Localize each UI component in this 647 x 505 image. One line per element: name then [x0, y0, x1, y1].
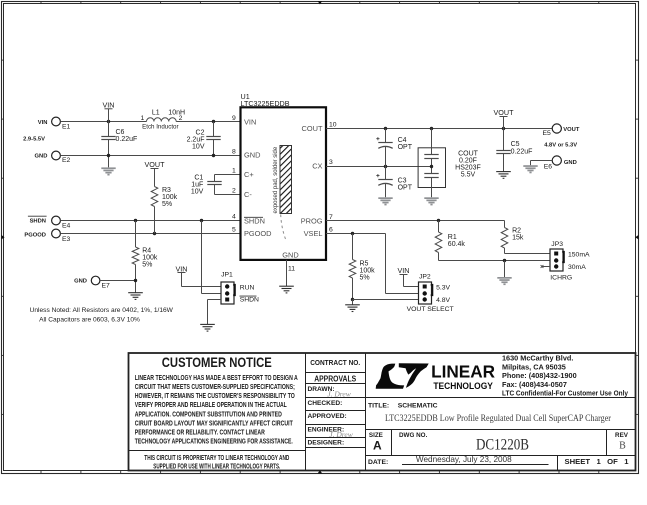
svg-text:DC1220B: DC1220B — [476, 436, 529, 453]
junction VSEL/R5 — [351, 232, 354, 235]
svg-text:SHDN: SHDN — [30, 218, 46, 224]
svg-text:VOUT: VOUT — [145, 160, 166, 169]
svg-text:100k: 100k — [162, 194, 178, 201]
svg-text:C4: C4 — [398, 137, 407, 144]
wire E7 to R4 bottom — [100, 280, 136, 282]
svg-text:4.8V: 4.8V — [436, 297, 450, 304]
capacitor C1 1uF 10V — [207, 181, 221, 183]
capacitor C3 OPT (polarized) — [385, 167, 387, 180]
svg-text:Unless Noted: All Resistors ar: Unless Noted: All Resistors are 0402, 1%… — [30, 307, 174, 314]
connector E5 — [552, 124, 561, 133]
svg-text:Milpitas, CA 95035: Milpitas, CA 95035 — [502, 362, 566, 371]
svg-text:R5: R5 — [360, 260, 369, 267]
Linear Technology logo mark — [376, 363, 429, 388]
junction R1-net/ground — [503, 259, 506, 262]
svg-text:1: 1 — [141, 115, 145, 122]
junction R4/E7 — [134, 279, 137, 282]
svg-text:R2: R2 — [512, 227, 521, 234]
resistor R2 15k — [504, 221, 506, 228]
svg-text:REV: REV — [615, 432, 629, 439]
junction SHDN/JP1 — [200, 219, 203, 222]
wire VIN tap to JP1 pin 1 — [182, 286, 222, 288]
svg-text:5.3V: 5.3V — [436, 284, 450, 291]
wire JP1 pin3 to ground — [208, 299, 222, 301]
svg-text:CX: CX — [312, 162, 322, 171]
svg-text:150mA: 150mA — [568, 252, 590, 259]
wire SHDN net: E4 to U1 pin 4 — [60, 220, 240, 222]
wire PGOOD net: E3 to U1 pin 5 — [60, 233, 240, 235]
op IC U1 LTC3225EDDB body — [241, 107, 327, 260]
svg-text:APPLICATION. COMPONENT SUBSTI: APPLICATION. COMPONENT SUBSTITUTION AND … — [135, 409, 282, 418]
svg-text:5%: 5% — [142, 262, 152, 269]
svg-text:SCHEMATIC: SCHEMATIC — [398, 402, 438, 409]
junction PROG/R1 — [437, 219, 440, 222]
svg-text:E7: E7 — [102, 283, 111, 290]
svg-text:4: 4 — [232, 214, 236, 221]
junction VIN/C2 — [212, 120, 215, 123]
svg-text:All Capacitors are 0603, 6.3V: All Capacitors are 0603, 6.3V 10% — [39, 316, 140, 323]
svg-text:E6: E6 — [544, 164, 553, 171]
svg-text:GND: GND — [35, 153, 48, 159]
wire R1 bottom to JP3 pin2 — [439, 260, 551, 262]
svg-text:GND: GND — [564, 160, 577, 166]
svg-text:5: 5 — [232, 227, 236, 234]
svg-text:5.5V: 5.5V — [461, 171, 476, 178]
svg-text:DWG NO.: DWG NO. — [399, 432, 428, 439]
svg-text:C-: C- — [244, 190, 252, 199]
svg-text:R4: R4 — [142, 248, 151, 255]
wire R2 to JP3 pin1 — [505, 253, 551, 255]
svg-text:LINEAR TECHNOLOGY HAS MADE A B: LINEAR TECHNOLOGY HAS MADE A BEST EFFORT… — [135, 373, 298, 382]
jumper JP1 RUN/SHDN — [221, 282, 234, 304]
jumper JP2 VOUT SELECT — [419, 282, 432, 304]
connector E1 — [52, 117, 61, 126]
svg-text:C3: C3 — [398, 177, 407, 184]
svg-text:LTC3225EDDB Low Profile Regula: LTC3225EDDB Low Profile Regulated Dual C… — [385, 413, 612, 424]
svg-text:J. Drew: J. Drew — [327, 390, 350, 399]
svg-text:C+: C+ — [244, 170, 254, 179]
svg-text:6: 6 — [329, 227, 333, 234]
svg-text:E3: E3 — [62, 236, 71, 243]
svg-text:10V: 10V — [191, 188, 204, 195]
connector E6 — [552, 156, 561, 165]
svg-text:SHDN: SHDN — [240, 297, 259, 304]
svg-text:100k: 100k — [360, 267, 376, 274]
svg-text:DATE:: DATE: — [368, 459, 388, 466]
wire R3 to PGOOD net — [154, 207, 156, 234]
svg-text:TECHNOLOGY APPLICATIONS ENGINE: TECHNOLOGY APPLICATIONS ENGINEERING FOR … — [135, 437, 293, 446]
svg-text:E4: E4 — [62, 223, 71, 230]
resistor R3 100k 5% — [151, 187, 158, 207]
svg-text:VSEL: VSEL — [304, 229, 323, 238]
svg-text:VIN: VIN — [38, 120, 48, 126]
svg-text:9: 9 — [232, 115, 236, 122]
svg-text:LINEAR: LINEAR — [431, 362, 495, 382]
connector E3 — [52, 229, 61, 238]
ground (gray) under C3 — [378, 197, 392, 199]
svg-text:1: 1 — [232, 168, 236, 175]
wire VIN net: E1 to L1 — [60, 121, 146, 123]
svg-text:APPROVED:: APPROVED: — [308, 413, 347, 420]
svg-text:Etch Inductor: Etch Inductor — [142, 123, 178, 130]
supercap COUT 0.20F HS203F 5.5V — [418, 148, 445, 188]
svg-text:E5: E5 — [542, 130, 551, 137]
no-connect stub JP3 pin3 — [542, 266, 550, 268]
svg-text:C5: C5 — [511, 141, 520, 148]
svg-text:11: 11 — [288, 265, 295, 272]
junction R5/JP2 wire — [351, 298, 354, 301]
svg-text:CIRUIT BOARD LAYOUT MAY SIGNIF: CIRUIT BOARD LAYOUT MAY SIGNIFICANTLY AF… — [135, 418, 293, 427]
svg-text:1630 McCarthy Blvd.: 1630 McCarthy Blvd. — [502, 354, 573, 363]
wire R5 to ground — [352, 300, 354, 305]
svg-text:C2: C2 — [196, 130, 205, 137]
svg-text:E1: E1 — [62, 124, 71, 131]
svg-text:PERFORMANCE OR RELIABILITY. C: PERFORMANCE OR RELIABILITY. CONTACT LINE… — [135, 428, 266, 437]
svg-text:R1: R1 — [448, 234, 457, 241]
svg-text:TITLE:: TITLE: — [368, 402, 389, 409]
svg-text:COUT: COUT — [302, 124, 323, 133]
svg-text:VOUT SELECT: VOUT SELECT — [407, 306, 454, 313]
svg-text:10: 10 — [329, 121, 337, 128]
wire U1 pin1 C+ to C1 — [215, 174, 241, 176]
wire R5 bottom to JP2 pin3 — [353, 299, 419, 301]
svg-text:0.20F: 0.20F — [459, 157, 477, 164]
svg-text:5%: 5% — [360, 274, 370, 281]
svg-text:PROG: PROG — [301, 217, 323, 226]
svg-text:Phone: (408)432-1900: Phone: (408)432-1900 — [502, 371, 577, 380]
svg-text:5%: 5% — [162, 201, 172, 208]
inductor L1 10nH Etch Inductor — [147, 118, 177, 122]
svg-text:HOWEVER, IT REMAINS THE CUSTOM: HOWEVER, IT REMAINS THE CUSTOMER’S RESPO… — [135, 391, 295, 400]
svg-text:JP3: JP3 — [551, 241, 563, 248]
svg-text:Wednesday, July 23, 2008: Wednesday, July 23, 2008 — [416, 455, 512, 464]
svg-text:OPT: OPT — [398, 184, 413, 191]
svg-text:CIRCUIT THAT MEETS CUSTOMER-SU: CIRCUIT THAT MEETS CUSTOMER-SUPPLIED SPE… — [135, 382, 295, 391]
svg-text:exposed pad, solder side: exposed pad, solder side — [273, 146, 279, 213]
connector E4 — [52, 216, 61, 225]
ground (gray) at E6 — [523, 165, 537, 167]
svg-text:VIN: VIN — [244, 117, 256, 126]
svg-text:VOUT: VOUT — [494, 108, 515, 117]
junction CX/C4/C3 — [384, 165, 387, 168]
svg-text:RUN: RUN — [240, 284, 255, 291]
title block outline — [129, 353, 636, 471]
svg-text:30mA: 30mA — [568, 264, 586, 271]
svg-text:2.9-5.5V: 2.9-5.5V — [23, 136, 45, 142]
wire C1 to U1 pin2 C- — [214, 185, 216, 195]
svg-text:VERIFY PROPER AND RELIABLE OPE: VERIFY PROPER AND RELIABLE OPERATION IN … — [135, 400, 287, 409]
svg-text:1uF: 1uF — [191, 181, 203, 188]
ground under JP1 — [200, 323, 215, 325]
junction COUT/C5 — [502, 127, 505, 130]
svg-text:VIN: VIN — [103, 100, 115, 109]
capacitor C4 OPT (polarized) — [385, 129, 387, 143]
junction VIN/C6 — [107, 120, 110, 123]
wire PROG net: U1 pin7 right — [326, 220, 505, 222]
svg-text:PGOOD: PGOOD — [24, 232, 46, 238]
wire VIN net: L1 to U1 pin 9 — [176, 121, 240, 123]
svg-text:LTC3225EDDB: LTC3225EDDB — [241, 99, 290, 108]
svg-text:E2: E2 — [62, 157, 71, 164]
junction COUT/COUT cap — [430, 127, 433, 130]
svg-text:CONTRACT NO.: CONTRACT NO. — [310, 358, 360, 367]
svg-text:A: A — [373, 439, 382, 453]
svg-text:B: B — [619, 441, 626, 452]
svg-text:100k: 100k — [142, 255, 158, 262]
ground under U1 — [279, 285, 294, 287]
capacitor C6 0.22uF — [108, 122, 110, 137]
wire GND net: E2 to U1 pin 8 — [60, 155, 240, 157]
svg-text:SUPPLIED FOR USE WITH LINEAR T: SUPPLIED FOR USE WITH LINEAR TECHNOLOGY … — [153, 463, 280, 470]
svg-text:PGOOD: PGOOD — [244, 229, 272, 238]
svg-text:60.4k: 60.4k — [448, 241, 466, 248]
svg-text:C1: C1 — [194, 174, 203, 181]
svg-text:HS203F: HS203F — [455, 164, 481, 171]
capacitor C5 0.22uF — [503, 129, 505, 151]
svg-text:JP1: JP1 — [221, 271, 233, 278]
svg-text:LTC Confidential-For Customer: LTC Confidential-For Customer Use Only — [502, 388, 629, 397]
junction PGOOD/R3 — [153, 232, 156, 235]
svg-text:R3: R3 — [162, 187, 171, 194]
svg-text:15k: 15k — [512, 234, 524, 241]
resistor R4 100k 5% — [135, 221, 137, 248]
svg-text:COUT: COUT — [458, 150, 479, 157]
svg-text:10nH: 10nH — [168, 110, 185, 117]
svg-text:2: 2 — [232, 188, 236, 195]
svg-text:VIN: VIN — [398, 266, 410, 275]
ground under C5 — [496, 171, 511, 173]
capacitor C2 2.2uF 10V — [213, 122, 215, 137]
svg-text:3: 3 — [329, 159, 333, 166]
connector E7 — [91, 276, 100, 285]
wire junction to ground — [504, 261, 506, 278]
svg-text:2.2uF: 2.2uF — [187, 137, 205, 144]
svg-text:10V: 10V — [192, 144, 205, 151]
svg-text:4.8V or 5.3V: 4.8V or 5.3V — [544, 142, 577, 148]
junction GND/C6 — [107, 154, 110, 157]
resistor R5 100k 5% — [352, 234, 354, 260]
wire SHDN to JP1 pin 2 — [201, 221, 203, 294]
title block dividers — [128, 353, 635, 470]
wire COUT net: U1 pin10 to E5 — [326, 128, 552, 130]
U1 exposed pad — [280, 146, 292, 214]
svg-text:VOUT: VOUT — [563, 127, 580, 133]
wire E6 to ground — [531, 160, 553, 162]
ground (gray) under R1/R2 — [497, 277, 511, 279]
svg-text:GND: GND — [244, 151, 260, 160]
svg-text:THIS CIRCUIT IS PROPRIETARY TO: THIS CIRCUIT IS PROPRIETARY TO LINEAR TE… — [144, 455, 289, 462]
svg-text:TECHNOLOGY: TECHNOLOGY — [433, 381, 493, 391]
ground (gray) under C6 — [101, 167, 115, 169]
wire CX net: U1 pin3 to supercap — [326, 166, 432, 168]
svg-text:ICHRG: ICHRG — [550, 275, 572, 282]
svg-text:OPT: OPT — [398, 144, 413, 151]
ground under R5 — [345, 304, 360, 306]
svg-text:JP2: JP2 — [419, 274, 431, 281]
ground (gray) under supercap — [424, 197, 438, 199]
resistor R1 60.4k — [438, 221, 440, 233]
wire VSEL to JP2 pin2 — [385, 234, 387, 294]
wire VIN tap to JP2 pin1 — [404, 286, 419, 288]
ground under R4 — [128, 292, 143, 294]
svg-text:DESIGNER:: DESIGNER: — [308, 440, 345, 447]
wire VSEL net: U1 pin6 right — [326, 233, 386, 235]
junction COUT/C4 — [384, 127, 387, 130]
svg-text:CUSTOMER NOTICE: CUSTOMER NOTICE — [162, 355, 272, 370]
svg-text:CHECKED:: CHECKED: — [308, 400, 343, 407]
junction GND/C2 — [212, 154, 215, 157]
connector E2 — [52, 151, 61, 160]
svg-text:SHEET 1 OF 1: SHEET 1 OF 1 — [565, 457, 629, 466]
svg-text:GND: GND — [74, 278, 87, 284]
svg-text:8: 8 — [232, 148, 236, 155]
svg-text:0.22uF: 0.22uF — [511, 149, 533, 156]
svg-text:SHDN: SHDN — [244, 217, 265, 226]
svg-text:J. Drew: J. Drew — [329, 430, 352, 439]
jumper JP3 ICHRG — [550, 249, 563, 271]
svg-text:GND: GND — [282, 250, 298, 259]
svg-text:L1: L1 — [152, 110, 160, 117]
svg-text:APPROVALS: APPROVALS — [314, 374, 356, 384]
wire U1 pin11 to ground — [286, 260, 288, 286]
svg-text:0.22uF: 0.22uF — [116, 136, 138, 143]
junction SHDN/R4 — [134, 219, 137, 222]
